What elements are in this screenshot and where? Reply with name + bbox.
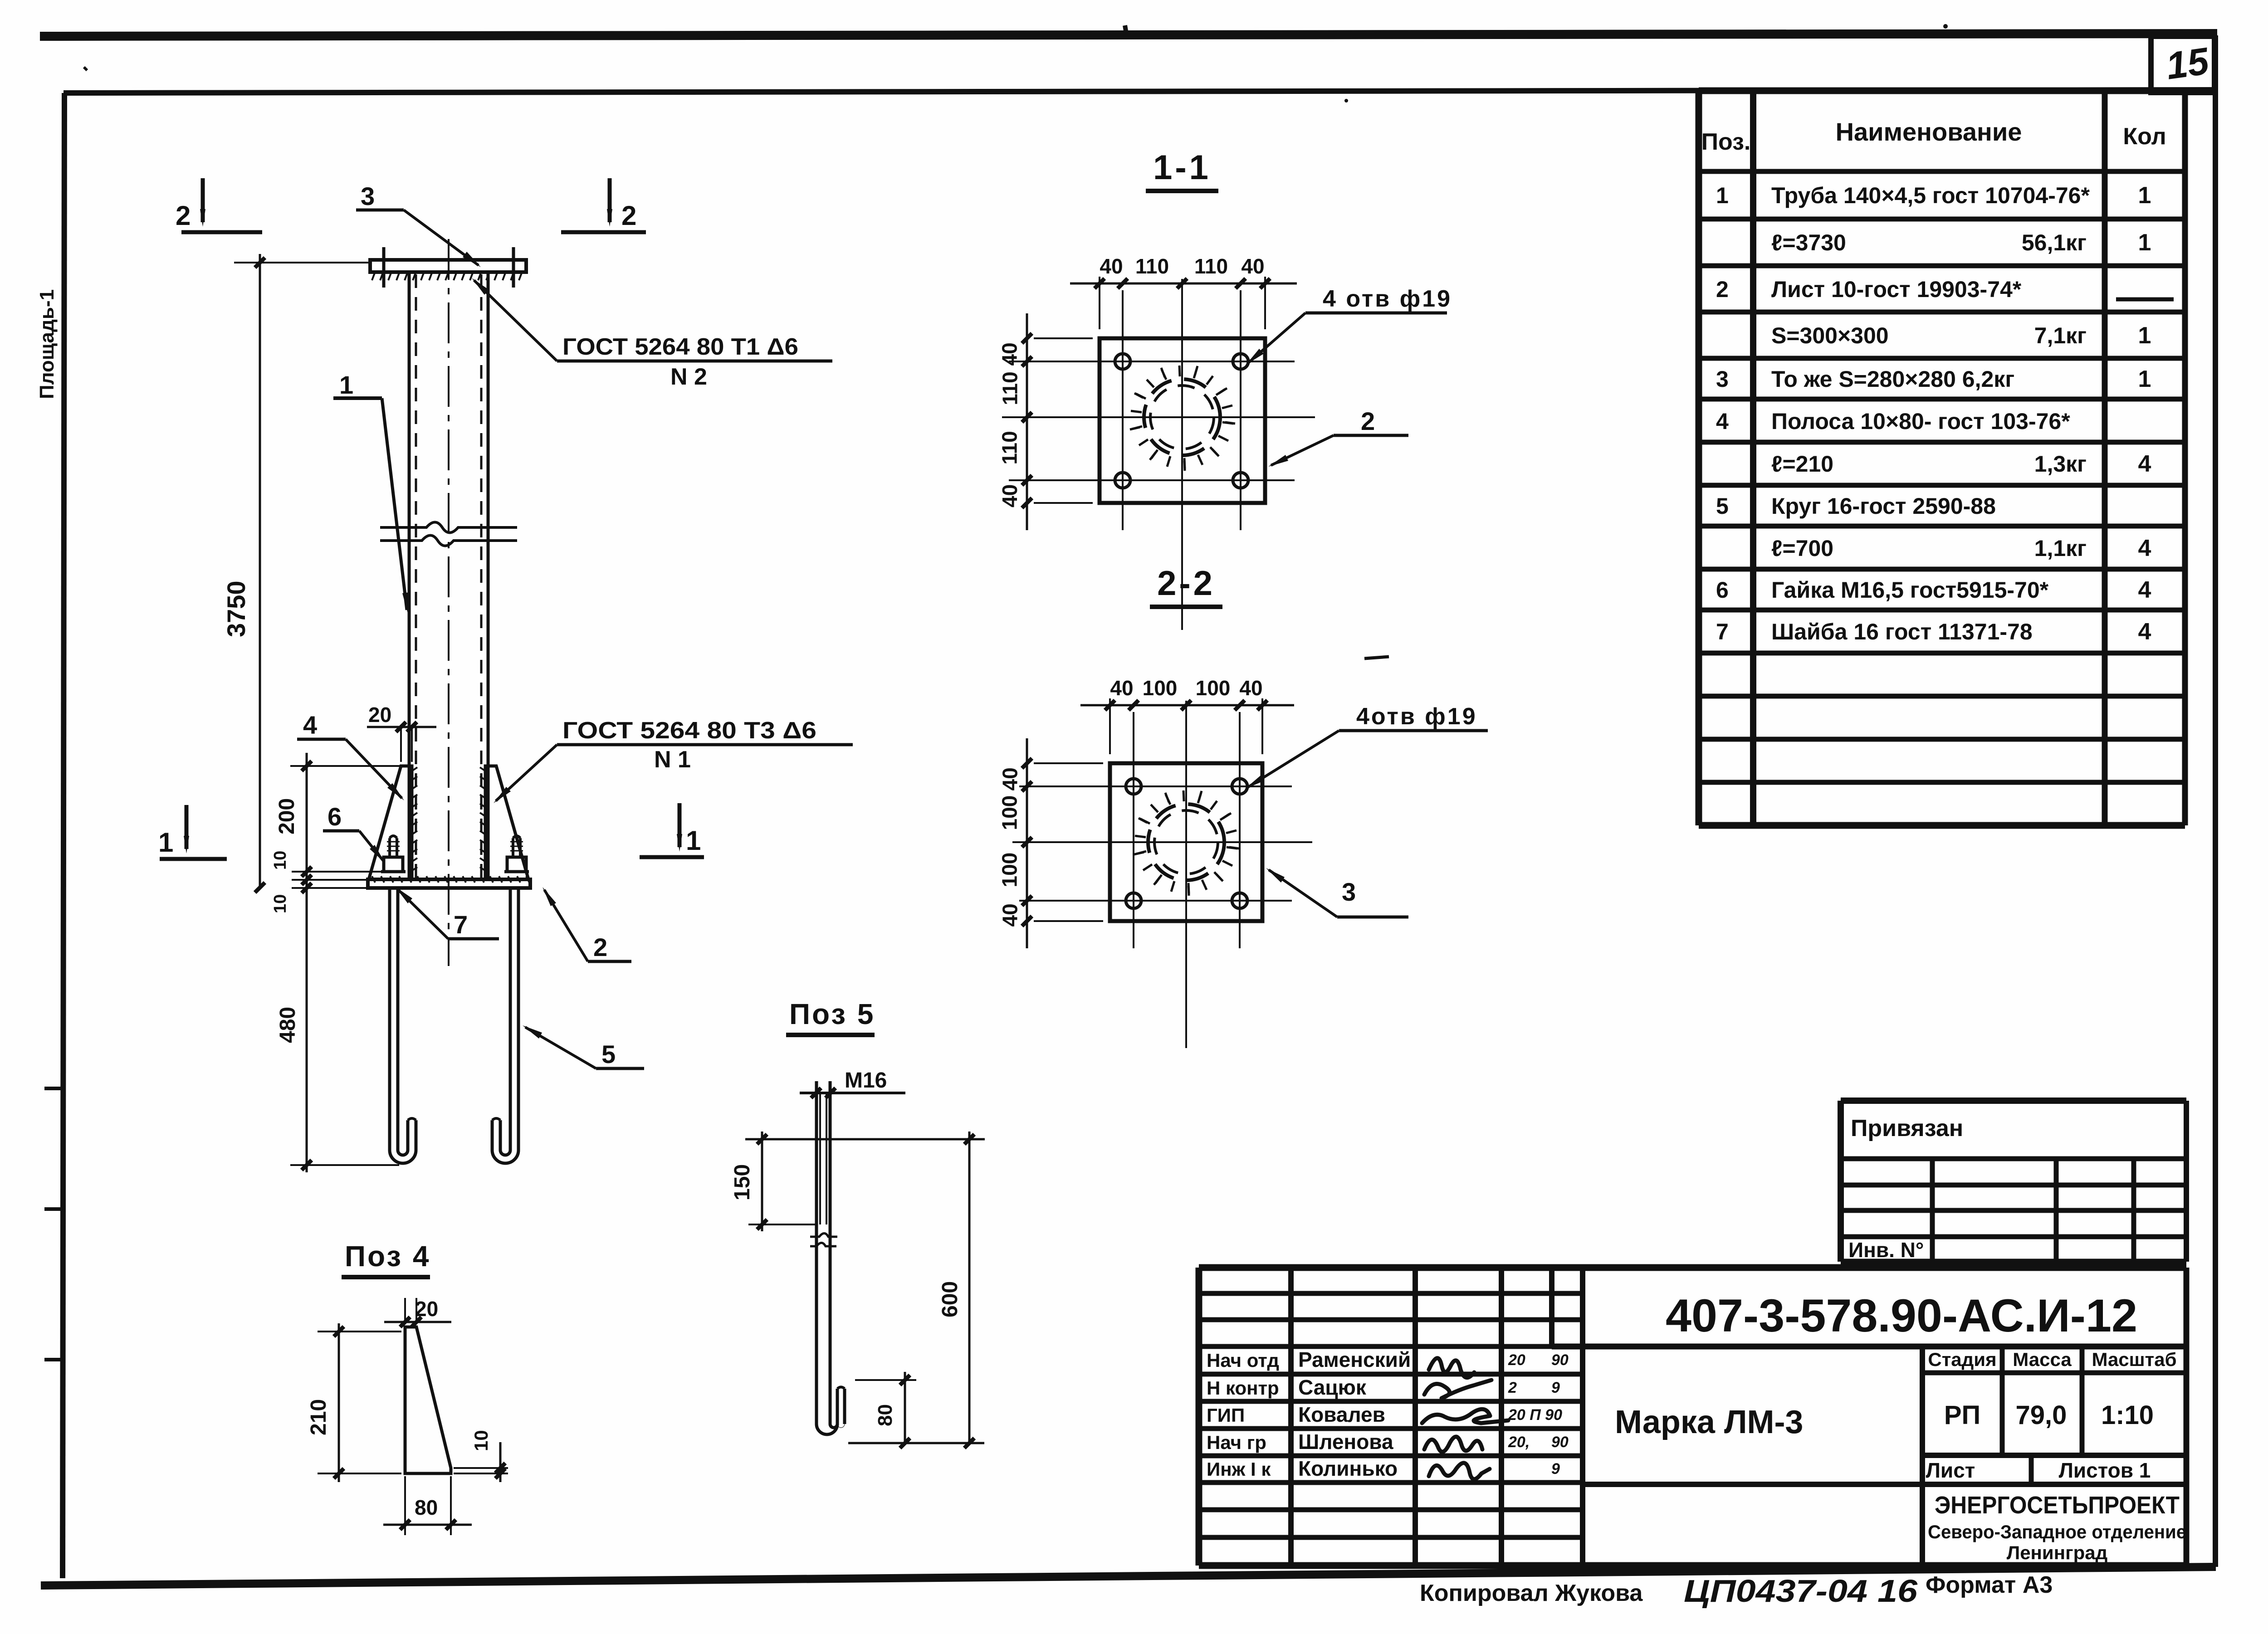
svg-text:10: 10 — [271, 894, 290, 913]
svg-text:90: 90 — [1551, 1351, 1569, 1369]
svg-text:Лист 10-гост 19903-74*: Лист 10-гост 19903-74* — [1771, 277, 2022, 302]
svg-text:Нач отд: Нач отд — [1207, 1350, 1279, 1371]
svg-text:Шленова: Шленова — [1298, 1430, 1393, 1454]
svg-text:10: 10 — [271, 851, 290, 870]
svg-text:600: 600 — [938, 1281, 962, 1317]
svg-text:2: 2 — [593, 933, 607, 961]
svg-text:Поз.: Поз. — [1701, 129, 1751, 155]
svg-text:200: 200 — [275, 798, 299, 834]
svg-text:4: 4 — [2138, 577, 2151, 603]
svg-text:110: 110 — [1135, 254, 1169, 278]
svg-text:N 2: N 2 — [670, 364, 707, 390]
svg-text:Марка ЛМ-3: Марка ЛМ-3 — [1615, 1404, 1803, 1440]
svg-text:Колинько: Колинько — [1298, 1457, 1398, 1480]
svg-text:ℓ=210: ℓ=210 — [1771, 451, 1833, 477]
svg-text:7: 7 — [1716, 619, 1729, 644]
svg-text:6: 6 — [327, 802, 342, 831]
svg-text:2: 2 — [1508, 1379, 1517, 1396]
svg-text:79,0: 79,0 — [2016, 1400, 2067, 1430]
svg-text:Масса: Масса — [2013, 1349, 2072, 1370]
svg-text:Полоса 10×80- гост 103-76*: Полоса 10×80- гост 103-76* — [1771, 409, 2070, 434]
svg-text:100: 100 — [998, 795, 1022, 830]
svg-text:9: 9 — [1551, 1460, 1560, 1478]
svg-text:4: 4 — [2138, 451, 2151, 477]
svg-text:20: 20 — [368, 703, 391, 727]
svg-text:1: 1 — [339, 371, 353, 399]
svg-text:2-2: 2-2 — [1157, 564, 1215, 603]
svg-text:4отв ф19: 4отв ф19 — [1356, 703, 1477, 730]
svg-text:Шайба 16 гост 11371-78: Шайба 16 гост 11371-78 — [1771, 619, 2033, 644]
svg-text:РП: РП — [1944, 1400, 1980, 1430]
svg-text:S=300×300: S=300×300 — [1771, 323, 1889, 348]
svg-text:Инж I к: Инж I к — [1207, 1458, 1271, 1480]
svg-text:4 отв ф19: 4 отв ф19 — [1323, 286, 1452, 312]
svg-text:6: 6 — [1716, 577, 1729, 603]
svg-text:100: 100 — [1143, 676, 1178, 700]
svg-text:Н контр: Н контр — [1207, 1377, 1279, 1399]
svg-text:9: 9 — [1551, 1379, 1560, 1396]
svg-text:Формат А3: Формат А3 — [1926, 1572, 2053, 1598]
svg-text:15: 15 — [2163, 39, 2212, 88]
svg-text:4: 4 — [2138, 535, 2151, 561]
svg-text:407-3-578.90-АС.И-12: 407-3-578.90-АС.И-12 — [1666, 1290, 2137, 1341]
svg-text:1: 1 — [2138, 229, 2151, 256]
svg-text:150: 150 — [730, 1164, 754, 1200]
svg-text:ГОСТ 5264 80 Т1 Δ6: ГОСТ 5264 80 Т1 Δ6 — [562, 334, 798, 360]
svg-text:Круг 16-гост 2590-88: Круг 16-гост 2590-88 — [1771, 493, 1996, 519]
svg-text:80: 80 — [874, 1404, 896, 1426]
svg-text:Лист: Лист — [1926, 1458, 1975, 1482]
svg-text:Поз 4: Поз 4 — [345, 1240, 430, 1273]
svg-text:40: 40 — [1239, 676, 1262, 700]
svg-text:40: 40 — [1110, 676, 1133, 700]
svg-text:Кол: Кол — [2123, 123, 2166, 150]
svg-text:ЦП0437-04 16: ЦП0437-04 16 — [1684, 1573, 1918, 1609]
svg-text:90: 90 — [1551, 1434, 1569, 1451]
svg-text:2: 2 — [1716, 277, 1729, 302]
svg-text:1: 1 — [158, 827, 173, 858]
svg-text:20: 20 — [1508, 1351, 1525, 1369]
svg-text:Раменский: Раменский — [1298, 1348, 1411, 1371]
svg-text:1: 1 — [686, 825, 701, 856]
svg-text:10: 10 — [470, 1430, 492, 1451]
svg-text:Северо-Западное отделение: Северо-Западное отделение — [1928, 1521, 2186, 1542]
svg-text:1,3кг: 1,3кг — [2034, 451, 2087, 477]
svg-text:1: 1 — [2138, 322, 2151, 349]
svg-text:3: 3 — [361, 182, 375, 210]
svg-text:Поз 5: Поз 5 — [789, 998, 875, 1030]
svg-text:Инв. N°: Инв. N° — [1848, 1238, 1924, 1262]
svg-text:110: 110 — [998, 431, 1022, 464]
svg-text:20,: 20, — [1508, 1434, 1530, 1451]
svg-text:480: 480 — [276, 1007, 300, 1043]
svg-text:ЭНЕРГОСЕТЬПРОЕКТ: ЭНЕРГОСЕТЬПРОЕКТ — [1935, 1492, 2180, 1519]
svg-text:ℓ=700: ℓ=700 — [1771, 536, 1833, 561]
svg-text:3: 3 — [1716, 366, 1729, 392]
svg-text:3750: 3750 — [222, 580, 250, 637]
svg-text:М16: М16 — [845, 1068, 887, 1093]
svg-text:Стадия: Стадия — [1928, 1349, 1996, 1370]
svg-text:100: 100 — [998, 853, 1022, 888]
svg-text:ℓ=3730: ℓ=3730 — [1771, 230, 1846, 255]
svg-text:1: 1 — [1716, 183, 1729, 208]
svg-text:40: 40 — [998, 903, 1022, 927]
svg-text:N 1: N 1 — [654, 746, 691, 773]
svg-text:То же S=280×280 6,2кг: То же S=280×280 6,2кг — [1771, 366, 2014, 392]
svg-text:56,1кг: 56,1кг — [2022, 230, 2087, 255]
svg-text:80: 80 — [415, 1496, 438, 1519]
svg-text:Наименование: Наименование — [1836, 117, 2022, 146]
svg-text:1: 1 — [2138, 366, 2151, 392]
svg-text:Нач гр: Нач гр — [1207, 1432, 1266, 1453]
svg-text:1,1кг: 1,1кг — [2034, 536, 2087, 561]
svg-text:Труба 140×4,5 гост 10704-76*: Труба 140×4,5 гост 10704-76* — [1771, 183, 2090, 208]
svg-text:210: 210 — [307, 1399, 331, 1435]
svg-text:100: 100 — [1196, 676, 1231, 700]
svg-text:Сацюк: Сацюк — [1298, 1375, 1367, 1399]
svg-text:Ленинград: Ленинград — [2007, 1542, 2108, 1563]
svg-text:4: 4 — [1716, 409, 1729, 434]
svg-text:Ковалев: Ковалев — [1298, 1403, 1385, 1426]
svg-text:4: 4 — [303, 711, 317, 739]
svg-text:5: 5 — [1716, 493, 1729, 519]
svg-text:40: 40 — [1241, 254, 1264, 278]
svg-text:2: 2 — [176, 200, 191, 231]
svg-text:Привязан: Привязан — [1851, 1115, 1963, 1141]
svg-text:40: 40 — [998, 484, 1022, 507]
svg-text:110: 110 — [998, 371, 1022, 405]
svg-text:1: 1 — [2138, 182, 2151, 209]
svg-text:ГОСТ 5264 80 Т3 Δ6: ГОСТ 5264 80 Т3 Δ6 — [562, 717, 816, 744]
svg-text:3: 3 — [1342, 878, 1356, 906]
svg-text:4: 4 — [2138, 619, 2151, 645]
svg-text:20 П 90: 20 П 90 — [1508, 1406, 1562, 1424]
svg-text:40: 40 — [1100, 254, 1123, 278]
svg-text:Гайка М16,5 гост5915-70*: Гайка М16,5 гост5915-70* — [1771, 577, 2049, 603]
svg-text:1:10: 1:10 — [2101, 1400, 2154, 1430]
svg-text:40: 40 — [998, 767, 1022, 790]
svg-text:2: 2 — [1361, 407, 1375, 435]
svg-text:110: 110 — [1194, 254, 1228, 278]
svg-text:5: 5 — [601, 1040, 616, 1068]
svg-text:40: 40 — [998, 342, 1022, 366]
svg-text:7,1кг: 7,1кг — [2034, 323, 2087, 348]
svg-text:Масштаб: Масштаб — [2092, 1349, 2176, 1370]
svg-text:Площадь-1: Площадь-1 — [36, 289, 58, 399]
svg-text:Копировал Жукова: Копировал Жукова — [1420, 1580, 1643, 1606]
svg-text:Листов 1: Листов 1 — [2059, 1458, 2151, 1482]
svg-text:7: 7 — [454, 910, 468, 939]
svg-text:ГИП: ГИП — [1207, 1405, 1245, 1426]
svg-text:1-1: 1-1 — [1153, 148, 1211, 187]
svg-text:2: 2 — [621, 200, 636, 231]
